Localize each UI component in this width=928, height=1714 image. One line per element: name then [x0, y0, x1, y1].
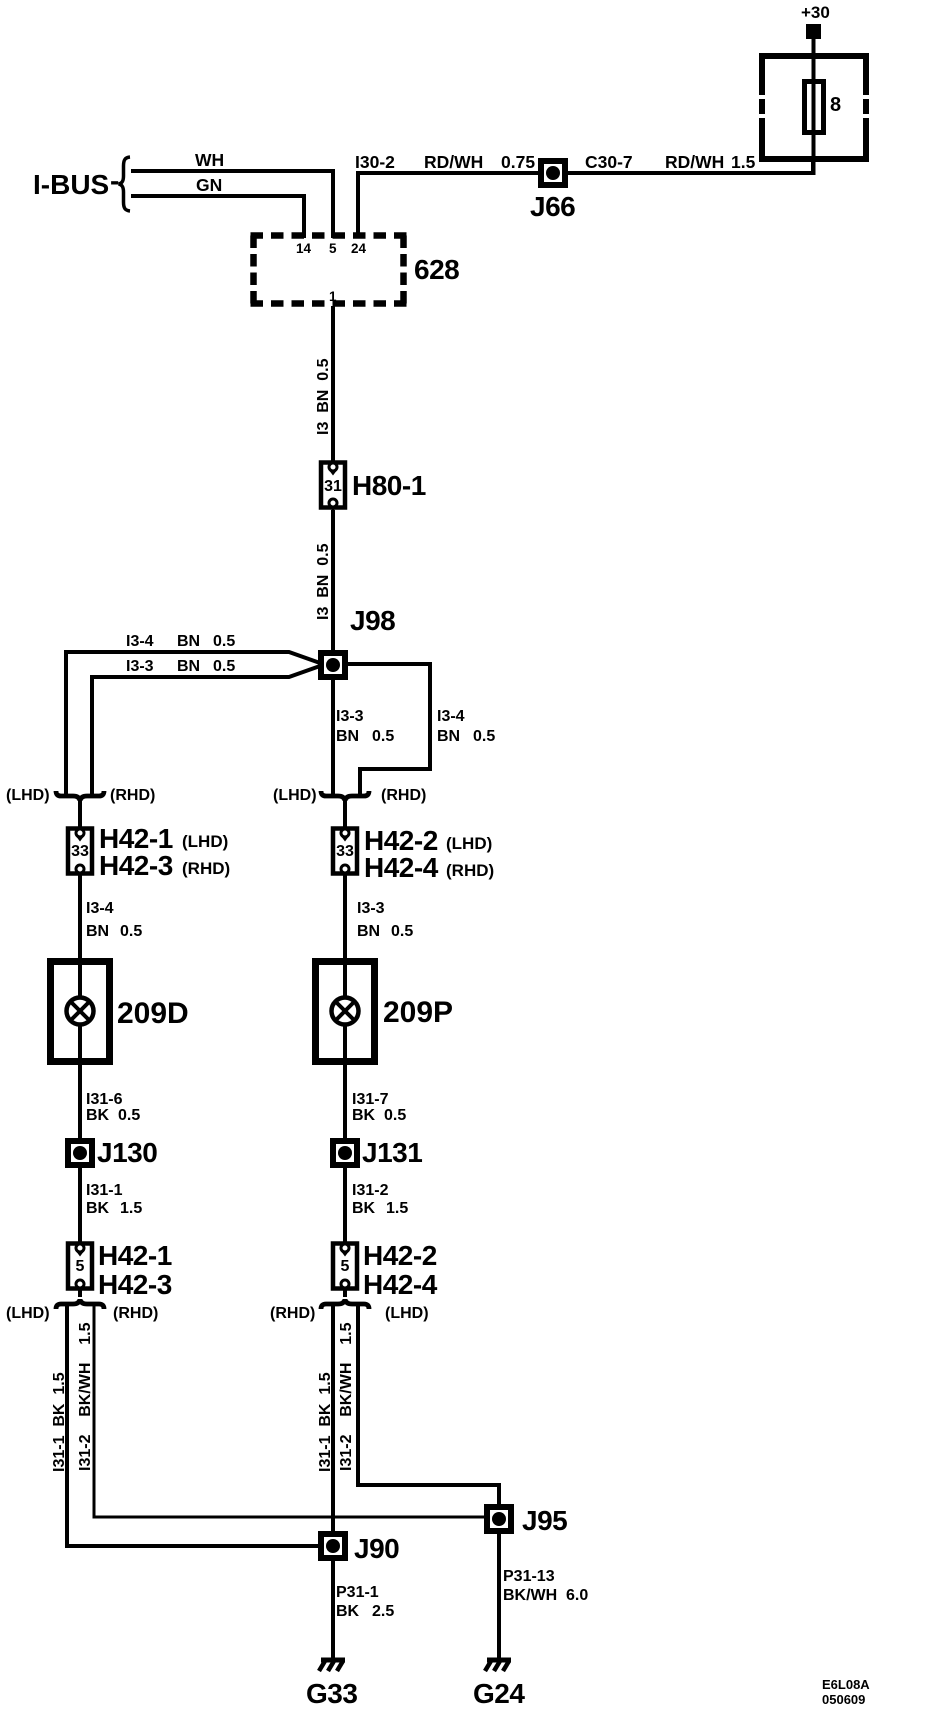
wire P31-13 BK/WH 6.0 from J95 to ground G24 [497, 1531, 501, 1659]
svg-text:P31-1: P31-1 [336, 1584, 379, 1601]
svg-text:I-BUS: I-BUS [33, 169, 109, 200]
svg-text:E6L08A: E6L08A [822, 1677, 870, 1692]
svg-text:1: 1 [329, 289, 337, 304]
svg-text:5: 5 [76, 1258, 85, 1275]
svg-text:050609: 050609 [822, 1692, 865, 1707]
wire C30-7 RD/WH 1.5 from J66 to fuse 8 [566, 162, 813, 173]
svg-text:I31-1: I31-1 [86, 1182, 123, 1199]
svg-text:(LHD): (LHD) [182, 832, 228, 851]
svg-text:I3-3: I3-3 [336, 708, 364, 725]
fuse 8 box [759, 53, 869, 162]
unit 628 dashed box [251, 236, 460, 305]
connector H42-1 (LHD) / H42-3 (RHD) pin 33 [68, 823, 230, 881]
wire I31-2 BK/WH 1.5 (RHD) left column to J95 [94, 1305, 486, 1517]
variant selector split (RHD)/(LHD) mid column bottom [270, 1289, 429, 1322]
svg-text:I31-6: I31-6 [86, 1091, 123, 1108]
svg-text:8: 8 [830, 94, 841, 116]
svg-text:+30: +30 [801, 3, 830, 22]
svg-text:0.5: 0.5 [120, 923, 142, 940]
wire I31-1 BK 1.5 (LHD) left column to J90 [67, 1305, 319, 1546]
junction J95 [487, 1505, 567, 1536]
svg-text:H42-4: H42-4 [364, 852, 439, 883]
svg-text:H42-4: H42-4 [363, 1269, 438, 1300]
wire I3-3 BN 0.5 below J98 [331, 677, 335, 798]
svg-text:14: 14 [296, 241, 312, 256]
svg-text:J66: J66 [530, 191, 575, 222]
svg-text:BN: BN [357, 923, 380, 940]
svg-text:RD/WH: RD/WH [665, 152, 724, 172]
svg-text:BK: BK [336, 1603, 360, 1620]
variant selector (LHD)/(RHD) left column top [6, 787, 155, 804]
svg-text:BK: BK [352, 1107, 376, 1124]
svg-text:I3-4: I3-4 [86, 900, 114, 917]
wire I31-1 BK 1.5 from J130 to H42 pin 5 [78, 1165, 82, 1243]
wire I3 BN 0.5 from H80-1 to J98 [331, 510, 335, 652]
svg-text:G33: G33 [306, 1678, 357, 1709]
wire variant to H42-1/H42-3 [78, 799, 82, 828]
junction J66 [530, 161, 575, 222]
svg-text:BN: BN [177, 658, 200, 675]
svg-text:BN: BN [437, 728, 460, 745]
svg-text:(LHD): (LHD) [385, 1305, 429, 1322]
svg-text:H80-1: H80-1 [352, 470, 426, 501]
wire variant to H42-2/H42-4 [343, 799, 347, 828]
wire I31-2 BK 1.5 from J131 to H42 pin 5 [343, 1165, 347, 1243]
svg-text:I3 BN 0.5: I3 BN 0.5 [315, 358, 332, 435]
wire GN from I-BUS to 628 pin 14 [131, 196, 304, 238]
wire I31-6 BK 0.5 from lamp to J130 [78, 1065, 82, 1140]
svg-text:J130: J130 [97, 1137, 157, 1168]
svg-text:-: - [110, 165, 119, 196]
ground G24 [473, 1660, 525, 1709]
svg-text:I3-3: I3-3 [357, 900, 385, 917]
svg-text:P31-13: P31-13 [503, 1568, 555, 1585]
lamp 209P [316, 961, 454, 1065]
variant selector split (LHD)/(RHD) left column bottom [6, 1289, 158, 1322]
wire I3 BN 0.5 from 628 pin 1 to H80-1 [331, 306, 335, 461]
svg-text:5: 5 [329, 241, 337, 256]
svg-text:0.5: 0.5 [391, 923, 413, 940]
connector H42-2 (LHD) / H42-4 (RHD) pin 33 [333, 825, 494, 883]
svg-text:I3-4: I3-4 [437, 708, 465, 725]
svg-text:31: 31 [324, 478, 342, 495]
svg-text:(RHD): (RHD) [182, 859, 230, 878]
fuse element 8 [805, 82, 824, 133]
svg-text:5: 5 [341, 1258, 350, 1275]
svg-text:I31-1 BK 1.5: I31-1 BK 1.5 [51, 1372, 68, 1472]
connector H80-1 pin 31 [321, 463, 426, 512]
wire I30-2 RD/WH 0.75 from 628 pin 24 to J66 [358, 173, 540, 238]
wire I3-3 BN 0.5 from J98 to left (lower) [92, 666, 320, 797]
svg-text:I3-4: I3-4 [126, 633, 154, 650]
wire I3-4 BN 0.5 right branch of J98 [345, 664, 430, 798]
svg-text:I31-2 BK/WH 1.5: I31-2 BK/WH 1.5 [77, 1322, 94, 1471]
connector H42-2 / H42-4 pin 5 [333, 1240, 438, 1300]
svg-text:209P: 209P [383, 996, 453, 1029]
svg-text:BN: BN [86, 923, 109, 940]
svg-text:I3-3: I3-3 [126, 658, 154, 675]
svg-text:(LHD): (LHD) [273, 787, 317, 804]
wire I3-4 BN 0.5 from J98 to left (upper) [66, 652, 320, 797]
svg-text:0.5: 0.5 [213, 658, 235, 675]
svg-text:BN: BN [336, 728, 359, 745]
wire I31-1 BK 1.5 (RHD) mid column to J90 [331, 1305, 335, 1533]
svg-text:J90: J90 [354, 1533, 399, 1564]
svg-text:I31-7: I31-7 [352, 1091, 389, 1108]
svg-text:33: 33 [336, 843, 354, 860]
connector H42-1 / H42-3 pin 5 [68, 1240, 172, 1300]
svg-text:BN: BN [177, 633, 200, 650]
svg-text:(RHD): (RHD) [110, 787, 155, 804]
svg-text:1.5: 1.5 [731, 152, 756, 172]
svg-text:0.5: 0.5 [372, 728, 394, 745]
svg-text:1.5: 1.5 [386, 1200, 408, 1217]
svg-text:24: 24 [351, 241, 367, 256]
svg-text:WH: WH [195, 150, 224, 170]
svg-text:J95: J95 [522, 1505, 567, 1536]
junction J98 [321, 605, 395, 677]
svg-text:I30-2: I30-2 [355, 152, 395, 172]
svg-text:0.5: 0.5 [473, 728, 495, 745]
svg-text:BK: BK [86, 1200, 110, 1217]
svg-text:2.5: 2.5 [372, 1603, 394, 1620]
ground G33 [306, 1660, 357, 1709]
svg-text:209D: 209D [117, 997, 189, 1030]
junction J90 [321, 1533, 399, 1564]
wire +30 to fuse [812, 39, 816, 175]
svg-text:(RHD): (RHD) [113, 1305, 158, 1322]
svg-text:BK/WH: BK/WH [503, 1587, 557, 1604]
node I-BUS brace [119, 157, 131, 211]
wire I31-2 BK/WH 1.5 (LHD) mid column to J95 [358, 1305, 499, 1506]
svg-text:H42-3: H42-3 [98, 1269, 172, 1300]
svg-text:0.5: 0.5 [118, 1107, 140, 1124]
wire P31-1 BK 2.5 from J90 to ground G33 [331, 1558, 335, 1659]
svg-text:RD/WH: RD/WH [424, 152, 483, 172]
svg-text:I31-2 BK/WH 1.5: I31-2 BK/WH 1.5 [338, 1322, 355, 1471]
svg-text:33: 33 [71, 843, 89, 860]
svg-text:(LHD): (LHD) [6, 1305, 50, 1322]
svg-text:H42-2: H42-2 [363, 1240, 437, 1271]
svg-text:H42-1: H42-1 [98, 1240, 172, 1271]
wire WH from I-BUS to 628 pin 5 [131, 171, 333, 238]
junction J131 [333, 1137, 422, 1168]
wire I3-4 BN 0.5 to lamp 209D [78, 874, 82, 961]
svg-text:H42-3: H42-3 [99, 850, 173, 881]
svg-text:(RHD): (RHD) [381, 787, 426, 804]
svg-text:J98: J98 [350, 605, 395, 636]
svg-text:0.5: 0.5 [384, 1107, 406, 1124]
svg-text:(RHD): (RHD) [446, 861, 494, 880]
svg-text:I3 BN 0.5: I3 BN 0.5 [315, 543, 332, 620]
wire I3-3 BN 0.5 to lamp 209P [343, 874, 347, 961]
svg-text:C30-7: C30-7 [585, 152, 633, 172]
svg-text:0.75: 0.75 [501, 152, 535, 172]
svg-text:628: 628 [414, 254, 459, 285]
wire I31-7 BK 0.5 from lamp to J131 [343, 1065, 347, 1140]
svg-text:(LHD): (LHD) [6, 787, 50, 804]
svg-text:I31-2: I31-2 [352, 1182, 389, 1199]
junction J130 [68, 1137, 157, 1168]
svg-text:GN: GN [196, 175, 222, 195]
svg-text:1.5: 1.5 [120, 1200, 142, 1217]
svg-text:J131: J131 [362, 1137, 422, 1168]
svg-text:(RHD): (RHD) [270, 1305, 315, 1322]
lamp 209D [51, 961, 189, 1065]
svg-text:6.0: 6.0 [566, 1587, 588, 1604]
svg-text:I31-1 BK 1.5: I31-1 BK 1.5 [317, 1372, 334, 1472]
variant selector (LHD)/(RHD) mid column top [273, 787, 426, 804]
svg-text:0.5: 0.5 [213, 633, 235, 650]
svg-text:BK: BK [352, 1200, 376, 1217]
svg-text:G24: G24 [473, 1678, 525, 1709]
svg-text:BK: BK [86, 1107, 110, 1124]
svg-text:(LHD): (LHD) [446, 834, 492, 853]
